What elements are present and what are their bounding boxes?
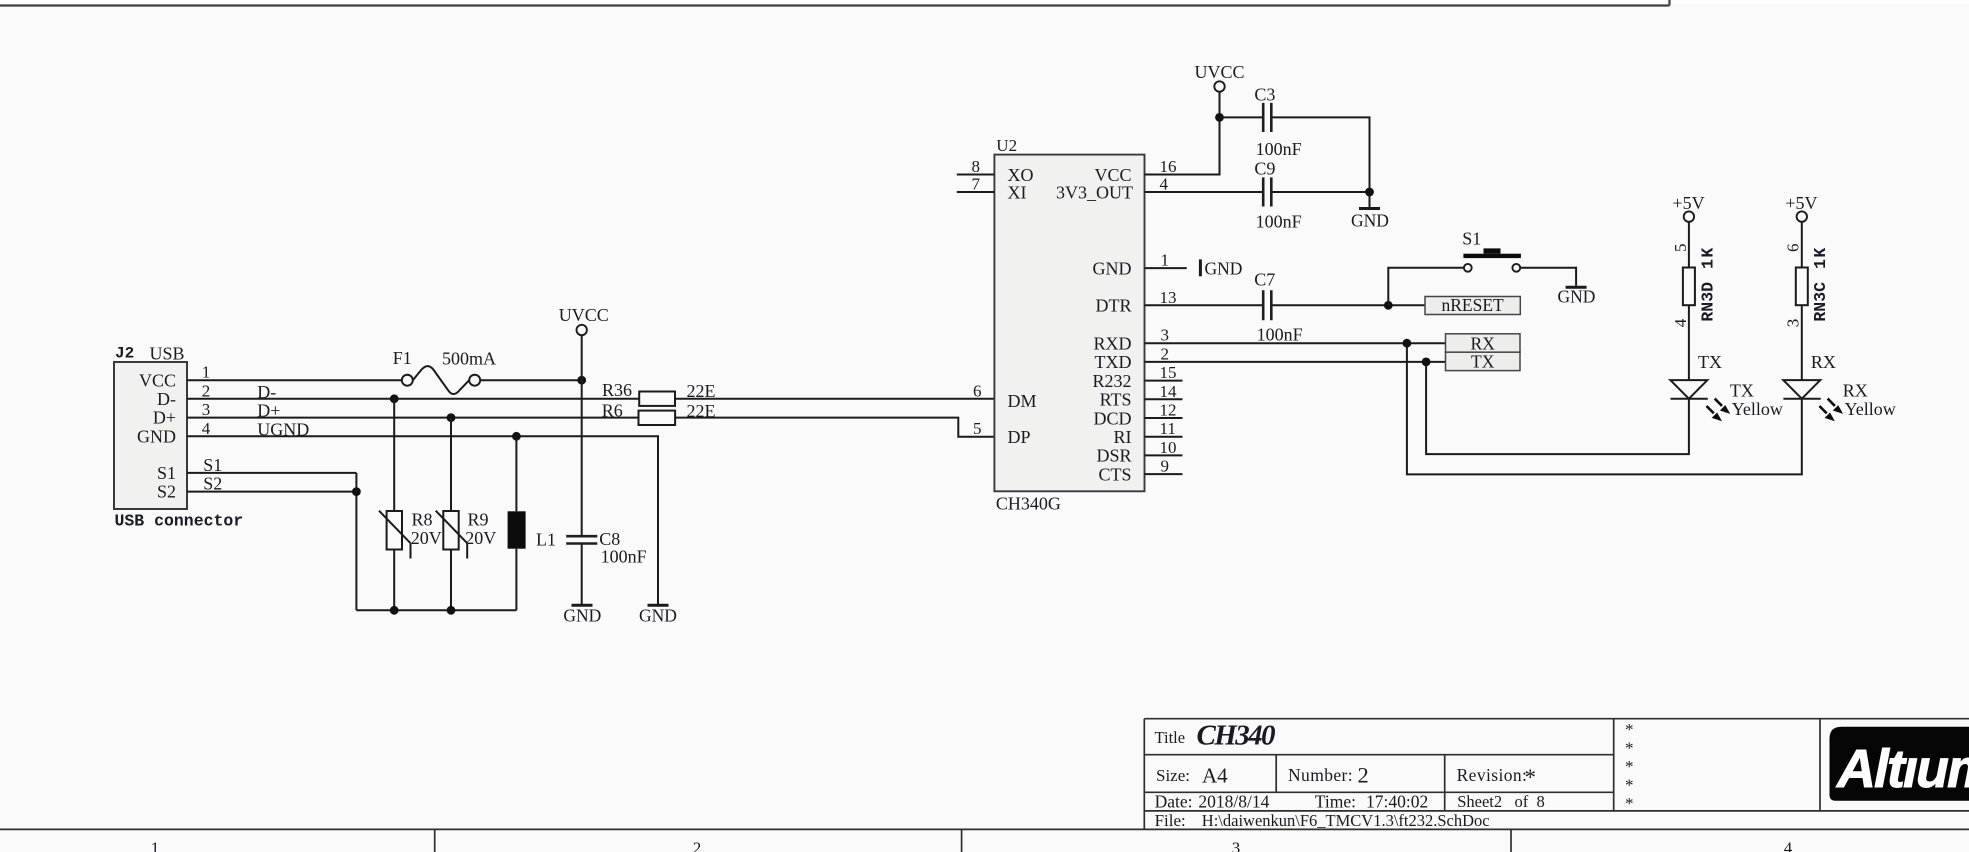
sheet top border line [0,0,1670,6]
svg-text:DCD: DCD [1093,408,1131,428]
net label box RX [1446,334,1521,354]
revision asterisks column [1625,720,1634,813]
svg-text:C9: C9 [1254,159,1275,179]
varistor R8 [379,511,411,559]
svg-text:10: 10 [1160,438,1177,457]
resistor R36 [639,392,675,406]
svg-text:RI: RI [1114,427,1132,447]
varistor R9 [436,511,468,559]
capacitor C9 [1263,177,1271,206]
svg-text:1K: 1K [1698,246,1717,269]
svg-text:1: 1 [202,363,211,382]
svg-text:J2: J2 [115,345,134,363]
junction D+/R9 [447,413,456,422]
svg-text:100nF: 100nF [1256,211,1302,231]
junction C9/GND [1365,188,1374,197]
svg-text:nRESET: nRESET [1441,295,1504,315]
fuse F1 [402,366,480,394]
svg-text:5: 5 [973,419,982,438]
svg-text:Altıum: Altıum [1835,739,1969,799]
svg-text:S1: S1 [157,463,176,483]
svg-text:TXD: TXD [1095,352,1132,372]
svg-text:File:: File: [1155,811,1186,830]
svg-text:1K: 1K [1811,246,1830,269]
svg-text:GND: GND [1093,258,1132,278]
svg-text:R36: R36 [602,380,632,400]
svg-text:R8: R8 [412,509,433,529]
TX LED emission arrows [1707,399,1731,422]
svg-text:Sheet2 of 8: Sheet2 of 8 [1457,792,1545,811]
Altium logo [1830,727,1969,801]
svg-text:DM: DM [1008,391,1037,411]
wire R6 to DP pin with jog [675,418,994,437]
svg-text:RX: RX [1843,381,1868,401]
svg-text:100nF: 100nF [1256,139,1302,159]
svg-text:C7: C7 [1254,270,1275,290]
svg-text:GND: GND [1558,286,1596,306]
U2 pin 8 stub XO [957,174,995,176]
inductor L1 [508,511,526,548]
wire S1 to GND [1520,268,1576,286]
svg-text:RN3C: RN3C [1811,282,1830,322]
capacitor C3 [1263,103,1271,132]
wire UGND from J2 to corner and down to GND [187,436,658,604]
svg-text:USB: USB [150,344,185,364]
svg-text:3: 3 [1232,839,1241,852]
svg-text:4: 4 [1671,318,1690,327]
svg-text:UVCC: UVCC [1194,62,1244,82]
svg-text:4: 4 [1784,839,1793,852]
svg-text:*: * [1525,765,1537,790]
wire RX net to RX LED [1407,343,1802,474]
svg-text:Size:: Size: [1156,766,1190,785]
svg-text:6: 6 [1784,244,1803,253]
svg-text:CH340G: CH340G [996,493,1061,513]
svg-text:500mA: 500mA [442,349,496,369]
junction rail/R9 [447,606,456,615]
svg-text:14: 14 [1160,382,1178,401]
svg-text:Yellow: Yellow [1845,399,1896,419]
bottom column divider c [1510,829,1512,852]
ground under C3/C9 [1351,209,1389,231]
svg-text:6: 6 [973,381,982,400]
svg-text:3: 3 [1784,319,1803,328]
wire RN3D to TX LED [1688,305,1690,380]
svg-text:GND: GND [639,606,677,626]
svg-text:16: 16 [1160,157,1177,176]
svg-text:Yellow: Yellow [1732,399,1783,419]
svg-text:TX: TX [1698,352,1722,372]
svg-text:U2: U2 [996,136,1017,155]
svg-text:S2: S2 [157,482,176,502]
svg-text:11: 11 [1160,419,1176,438]
UVCC power port (top) [1194,62,1244,118]
wire RN3C to RX LED [1801,305,1803,380]
svg-text:DTR: DTR [1096,296,1132,316]
sheet bottom border line [0,828,1969,830]
wire D+ from J2 to R6 [187,417,639,419]
LED TX [1670,380,1707,399]
wire S1 from J2 [187,472,356,474]
U2 unconnected stub RI [1145,436,1183,438]
U2 unconnected stub DCD [1145,417,1183,419]
ground under S1 [1558,286,1596,306]
wire RXD to RX box [1145,342,1446,344]
svg-text:4: 4 [1160,175,1169,194]
title block lines [1144,719,1969,830]
power port +5V (RX) [1785,193,1817,268]
svg-text:USB connector: USB connector [115,512,244,531]
junction DTR/S1 branch [1384,301,1393,310]
svg-text:17:40:02: 17:40:02 [1366,792,1428,812]
wire S2 from J2 and down to bottom rail [187,473,356,610]
svg-text:*: * [1625,757,1634,776]
svg-text:15: 15 [1160,363,1177,382]
svg-text:*: * [1625,794,1634,813]
svg-text:5: 5 [1671,244,1690,253]
svg-text:D+: D+ [153,408,176,428]
svg-text:H:\daiwenkun\F6_TMCV1.3\ft232.: H:\daiwenkun\F6_TMCV1.3\ft232.SchDoc [1202,811,1490,830]
svg-text:F1: F1 [393,348,412,368]
svg-text:Revision:: Revision: [1457,765,1528,785]
svg-text:8: 8 [972,157,981,176]
LED RX [1783,380,1820,399]
svg-text:DP: DP [1008,427,1031,447]
wire C7 to nRESET [1273,304,1426,306]
UVCC power port (left) [559,305,609,536]
junction UVCC/C3 [1215,113,1224,122]
svg-text:100nF: 100nF [601,547,647,567]
svg-text:1: 1 [151,839,160,852]
wire UVCC to C3 [1220,116,1263,118]
wire 3V3_OUT pin to C9 [1145,191,1263,193]
svg-text:7: 7 [972,175,981,194]
svg-text:TX: TX [1730,381,1754,401]
U2 unconnected stub RTS [1145,398,1183,400]
svg-text:+5V: +5V [1672,193,1704,213]
svg-text:VCC: VCC [139,370,176,390]
junction D-/R8 [390,394,399,403]
svg-text:2: 2 [1358,763,1369,788]
svg-text:R232: R232 [1092,371,1131,391]
junction UGND/L1 [512,432,521,441]
svg-text:XI: XI [1008,182,1027,202]
svg-text:L1: L1 [536,530,556,550]
svg-text:RXD: RXD [1093,334,1131,354]
ground bar at pin 1 [1200,259,1242,279]
svg-text:12: 12 [1160,401,1177,420]
USB connector J2 body [114,362,187,509]
svg-text:2: 2 [693,839,702,852]
svg-text:C3: C3 [1254,85,1275,105]
svg-text:UVCC: UVCC [559,305,609,325]
svg-text:1: 1 [1161,251,1170,270]
svg-text:9: 9 [1161,457,1170,476]
svg-text:DSR: DSR [1096,446,1131,466]
svg-text:GND: GND [1205,259,1243,279]
net label box nRESET [1425,295,1520,315]
power port +5V (TX) [1672,193,1704,268]
capacitor C7 [1263,290,1271,320]
U2 pin 1 GND stub [1145,267,1187,269]
wire VCC pin up to UVCC [1145,117,1220,174]
svg-text:Number:: Number: [1288,765,1353,785]
svg-text:GND: GND [563,606,601,626]
svg-text:A4: A4 [1202,764,1228,788]
svg-text:2018/8/14: 2018/8/14 [1198,792,1269,812]
svg-text:*: * [1625,739,1634,758]
wire VCC from J2 to fuse [187,379,402,381]
svg-text:2: 2 [1161,344,1170,363]
svg-text:RX: RX [1811,352,1836,372]
svg-text:4: 4 [202,419,211,438]
ground under UGND [639,605,677,625]
svg-text:RX: RX [1471,334,1496,354]
wire C9 to GND [1273,192,1370,207]
svg-text:3: 3 [1161,326,1170,345]
resistor RN3C [1796,268,1808,306]
junction VCC/UVCC [577,376,586,385]
wire fuse to UVCC column [480,379,582,381]
svg-text:TX: TX [1471,352,1495,372]
svg-text:Date:: Date: [1155,792,1193,812]
junction S1/S2 [352,487,361,496]
junction rail/R8 [390,606,399,615]
svg-text:GND: GND [1351,211,1389,231]
svg-text:+5V: +5V [1785,193,1817,213]
wire C3 to right column [1273,117,1370,192]
net label box TX [1446,352,1521,372]
wire TX net to TX LED [1426,362,1689,454]
capacitor C8 [566,536,597,543]
svg-text:CH340: CH340 [1197,719,1276,751]
resistor R6 [639,411,676,425]
svg-text:*: * [1625,776,1634,795]
svg-text:*: * [1625,720,1634,739]
U2 unconnected stub CTS [1145,473,1183,475]
wire TXD to TX box [1145,361,1446,363]
wire R36 to DM pin [675,398,994,400]
U2 unconnected stub DSR [1145,454,1183,456]
wire S1 branch up [1388,268,1464,306]
svg-text:3: 3 [202,400,211,419]
svg-text:RTS: RTS [1100,390,1132,410]
U2 unconnected stub R232 [1145,380,1183,382]
svg-text:20V: 20V [411,528,442,548]
junction RXD [1403,339,1412,348]
svg-text:S1: S1 [1462,228,1481,248]
svg-text:3V3_OUT: 3V3_OUT [1056,182,1133,202]
svg-text:GND: GND [137,426,176,446]
wire DTR to C7 [1145,304,1263,306]
resistor RN3D [1683,268,1695,306]
ground under C8 [563,605,601,625]
svg-text:20V: 20V [465,528,496,548]
svg-text:2: 2 [202,381,211,400]
junction TXD [1422,358,1431,367]
bottom column divider a [434,829,436,852]
svg-text:R9: R9 [468,509,489,529]
bottom rail wire [356,399,516,611]
switch S1 [1463,248,1521,271]
op IC U2 body [994,155,1144,492]
U2 pin 7 stub XI [957,191,995,193]
svg-text:R6: R6 [602,400,623,420]
svg-text:100nF: 100nF [1257,325,1303,345]
svg-text:RN3D: RN3D [1698,282,1717,322]
wire D- from J2 to R36 [187,398,639,400]
svg-text:CTS: CTS [1098,464,1131,484]
bottom column divider b [961,829,963,852]
RX LED emission arrows [1819,399,1843,422]
svg-text:13: 13 [1160,288,1177,307]
svg-text:Title: Title [1155,728,1186,747]
svg-text:Time:: Time: [1315,792,1356,812]
svg-text:D-: D- [157,389,176,409]
